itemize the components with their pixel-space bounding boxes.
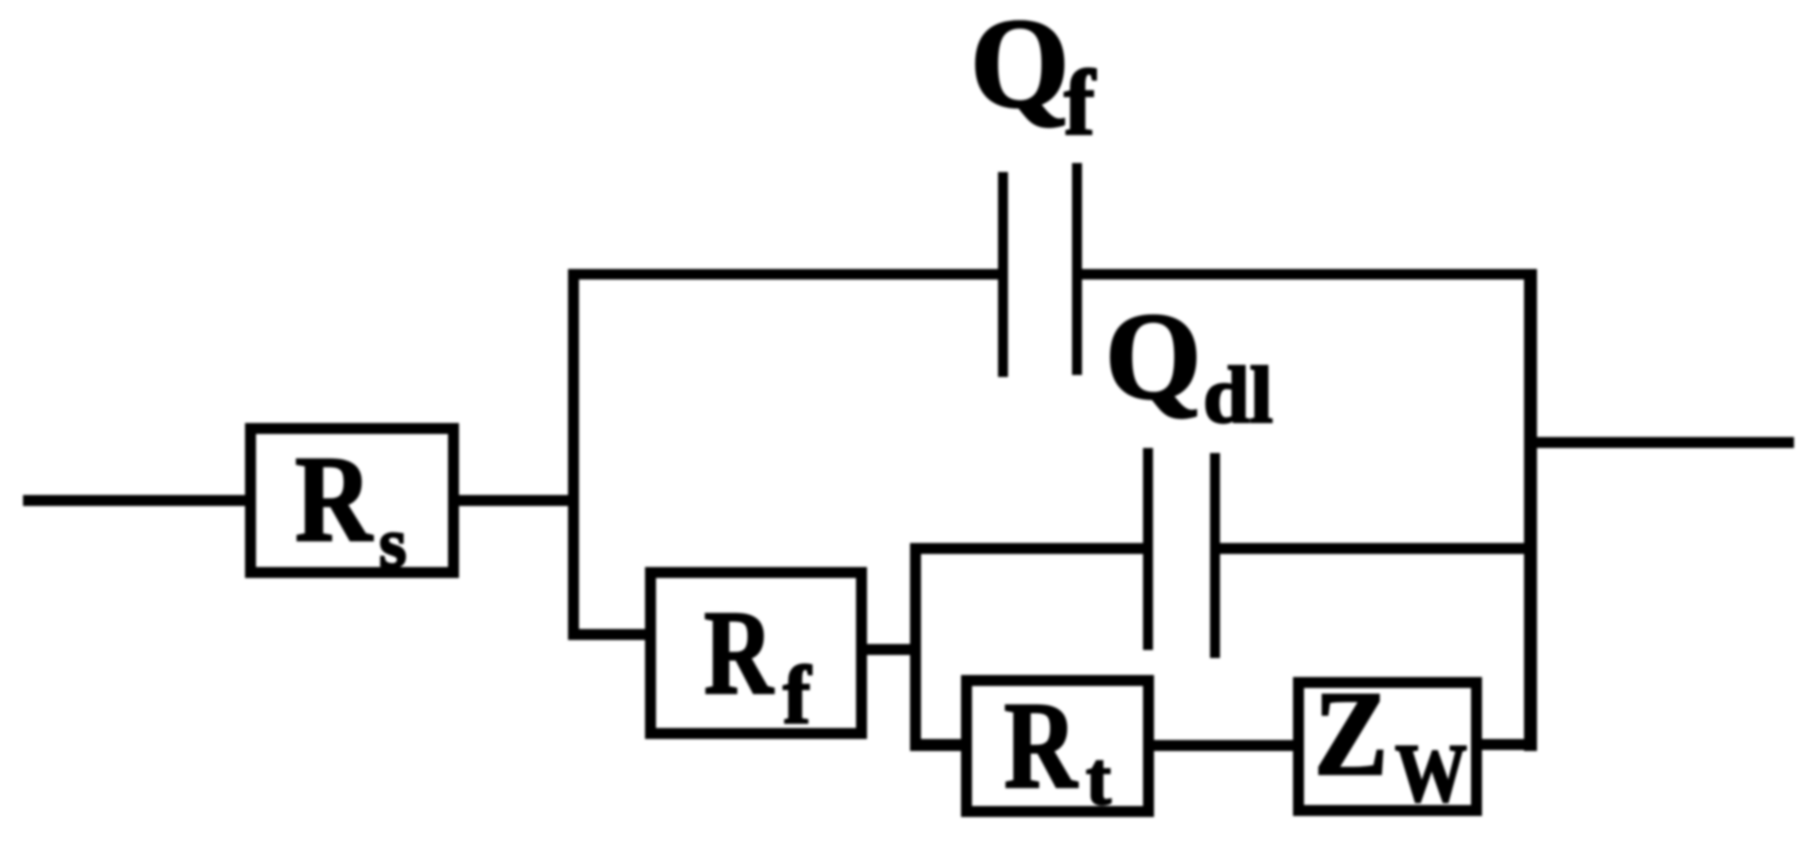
svg-text:f: f	[783, 649, 812, 741]
wire: left input lead	[23, 495, 246, 506]
wire: outer loop top, right segment	[1077, 269, 1537, 280]
wire: Rf to inner junction	[866, 644, 921, 655]
wire: inner loop bottom, right segment	[1477, 739, 1534, 750]
resistor Rs	[251, 429, 454, 573]
wire: inner loop left vertical	[910, 543, 921, 751]
svg-text:t: t	[1086, 738, 1111, 821]
svg-text:f: f	[1064, 52, 1096, 155]
svg-text:dl: dl	[1203, 350, 1273, 440]
wire: right vertical bus	[1524, 269, 1537, 751]
Warburg impedance Zw	[1299, 683, 1477, 811]
wire: inner loop bottom, middle segment	[1149, 740, 1298, 751]
resistor Rt	[967, 681, 1149, 812]
wire: outer loop top, left segment	[568, 269, 1003, 280]
wire: inner loop top, left segment	[910, 543, 1148, 554]
svg-text:W: W	[1395, 727, 1467, 819]
svg-text:Q: Q	[970, 0, 1070, 134]
wire: right output lead	[1530, 437, 1794, 448]
wire: inner loop bottom, left segment	[910, 739, 966, 751]
resistor Rf	[651, 573, 862, 734]
svg-text:Z: Z	[1314, 667, 1388, 801]
capacitor Qf left plate	[998, 172, 1008, 377]
wire: Rs to left junction	[453, 495, 573, 506]
svg-text:R: R	[295, 430, 373, 567]
capacitor Qdl left plate	[1143, 448, 1153, 650]
svg-text:s: s	[379, 505, 407, 583]
wire: outer loop left vertical	[568, 269, 579, 640]
wire: inner loop top, right segment	[1215, 543, 1532, 554]
svg-text:R: R	[704, 586, 774, 720]
svg-text:Q: Q	[1105, 288, 1201, 425]
capacitor Qdl right plate	[1210, 453, 1220, 658]
wire: lower branch horizontal to Rf	[568, 629, 650, 640]
capacitor Qf right plate	[1072, 163, 1082, 375]
svg-text:R: R	[1004, 677, 1078, 814]
